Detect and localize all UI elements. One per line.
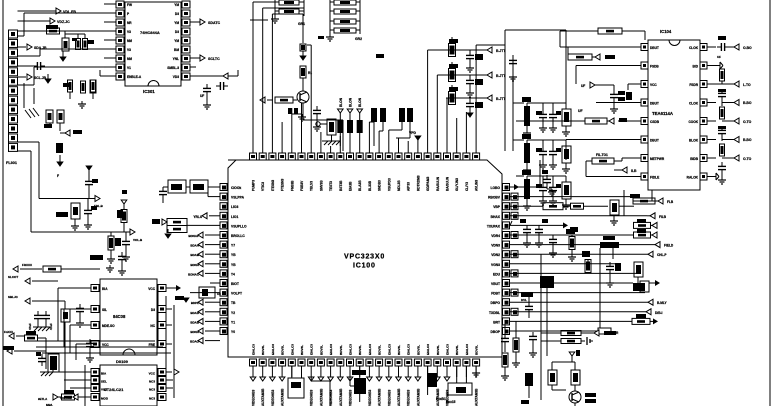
svg-text:LIO3: LIO3 <box>231 205 238 209</box>
svg-text:DBUT: DBUT <box>650 139 659 143</box>
IC100 left pin 12 (VOLPT) <box>220 289 242 296</box>
IC100 right pin 2 (RBOBV) <box>488 193 518 200</box>
ground <box>78 101 86 108</box>
IC100 left pin 7 (Y7) <box>220 241 235 248</box>
capacitor C134 <box>529 332 537 357</box>
svg-text:VSUPLLO: VSUPLLO <box>231 224 247 228</box>
terminal O.BO <box>717 36 752 59</box>
resistor R304 <box>62 38 69 51</box>
resistor R161 PLB <box>62 365 86 406</box>
terminal BPB <box>594 330 616 336</box>
IC100 left pin 8 (YB) <box>220 251 236 258</box>
IC104 pin 1 (DBUT) <box>632 44 659 51</box>
svg-text:BDNA: BDNA <box>190 330 199 334</box>
wire <box>623 190 625 216</box>
resistor R307 <box>90 80 96 99</box>
IC100 right pin 13 (DBPO) <box>490 299 509 306</box>
svg-text:LOBO: LOBO <box>490 186 500 190</box>
svg-text:VOL.B: VOL.B <box>133 238 143 242</box>
svg-text:CLOK: CLOK <box>689 46 699 50</box>
svg-text:SEL: SEL <box>101 380 107 384</box>
svg-text:RBOBV: RBOBV <box>488 196 501 200</box>
IC100 top pin 9 <box>327 146 334 160</box>
svg-text:FIDLE: FIDLE <box>650 176 659 180</box>
label UF <box>578 109 583 113</box>
IC100 right pin 14 (TXDBL) <box>489 308 518 315</box>
svg-text:EIALC3: EIALC3 <box>387 344 391 355</box>
svg-text:FRXXX: FRXXX <box>22 263 32 267</box>
ground <box>466 90 474 97</box>
wire <box>165 296 167 390</box>
terminal ref <box>174 369 179 375</box>
IC100 top pin 18 <box>414 146 421 160</box>
svg-text:NR: NR <box>127 21 132 25</box>
IC100 top pin 19 <box>424 146 431 160</box>
wire <box>263 8 304 146</box>
resistor R140 <box>446 366 472 404</box>
svg-text:RDTRDM3: RDTRDM3 <box>416 175 420 191</box>
resistor R132 <box>548 370 557 385</box>
svg-text:GD/PAM3: GD/PAM3 <box>426 176 430 191</box>
terminal BDAD <box>190 309 220 315</box>
wire <box>339 136 341 146</box>
svg-text:BDPL: BDPL <box>191 301 199 305</box>
svg-text:BDAB: BDAB <box>190 253 199 257</box>
svg-text:SIL: SIL <box>102 308 107 312</box>
wire <box>527 102 566 104</box>
svg-text:VPD: VPD <box>409 131 417 135</box>
capacitor C161 <box>118 252 126 275</box>
terminal SBLJC <box>8 295 65 304</box>
wire <box>527 175 566 177</box>
wire <box>190 66 196 68</box>
IC100 top pin 23 <box>463 146 470 160</box>
svg-text:SDATC: SDATC <box>208 21 221 25</box>
svg-text:VIDEOHB3: VIDEOHB3 <box>387 389 391 406</box>
wire <box>599 248 601 328</box>
IC109 pin 5 (FRE) <box>149 341 166 348</box>
IC100 bottom pin 4 <box>279 359 286 377</box>
capacitor C321 <box>466 75 483 90</box>
svg-text:L.TO: L.TO <box>743 83 751 87</box>
component D151 <box>48 354 59 372</box>
svg-text:TXDBL: TXDBL <box>489 311 500 315</box>
svg-text:74HC844A: 74HC844A <box>140 30 160 35</box>
IC100 right pin 3 (VBP) <box>493 203 518 210</box>
svg-text:EIA3B: EIA3B <box>349 181 353 191</box>
svg-text:FTESN3: FTESN3 <box>281 179 285 191</box>
wire <box>60 31 65 38</box>
wire <box>552 362 575 370</box>
wire <box>33 88 35 104</box>
wire <box>510 330 598 332</box>
resistor R313 <box>316 119 336 141</box>
svg-text:DBOP: DBOP <box>490 330 500 334</box>
terminal BDNAP <box>188 232 220 238</box>
svg-text:84C08: 84C08 <box>113 314 126 319</box>
IC301 pin 2 (left) <box>110 1 132 8</box>
wire <box>513 139 524 141</box>
capacitor C132 <box>501 334 509 352</box>
svg-text:DBUT: DBUT <box>650 102 659 106</box>
IC100 bottom pin 18 <box>414 359 421 377</box>
wire <box>504 321 506 334</box>
IC100 left pin 5 (VSUPLLO) <box>220 222 247 229</box>
resistor R137 <box>634 262 643 283</box>
terminal CHL.P <box>648 251 667 257</box>
svg-text:AUXTAM3B: AUXTAM3B <box>319 388 323 406</box>
wire <box>302 14 304 43</box>
svg-text:AUXTAM3B: AUXTAM3B <box>397 388 401 406</box>
svg-text:VCC: VCC <box>102 343 109 347</box>
wire <box>576 66 632 85</box>
IC109 pin 7 (D3) <box>151 306 166 313</box>
wire <box>320 132 322 146</box>
IC100 bottom pin 7 <box>308 359 315 377</box>
terminal YRLA <box>193 213 220 219</box>
svg-text:EDU: EDU <box>493 272 501 276</box>
IC100 top pin 17 <box>405 146 412 160</box>
resistor R321 <box>449 62 459 82</box>
svg-text:AUXTAM3B: AUXTAM3B <box>475 388 479 406</box>
component U105 <box>540 276 554 288</box>
IC100 bottom pin 20 <box>434 359 441 377</box>
wire <box>560 46 632 48</box>
IC100 bottom pin 19 <box>424 359 431 377</box>
ground hatch <box>322 141 340 145</box>
IC100 bottom pin 6 <box>298 359 305 377</box>
IC100 left pin 14 (Y2) <box>220 308 235 315</box>
capacitor C121 <box>520 219 531 247</box>
IC100 bottom pin 23 <box>463 359 470 377</box>
svg-text:FSDR: FSDR <box>689 83 698 87</box>
wire <box>70 325 85 353</box>
svg-text:ILB: ILB <box>631 169 637 173</box>
svg-text:O.TO: O.TO <box>743 120 752 124</box>
svg-text:VDN3: VDN3 <box>491 244 500 248</box>
IC100 left pin 9 (YB) <box>220 260 236 267</box>
IC100 left pin 3 (LIO3) <box>220 203 238 210</box>
terminal YIN <box>260 97 273 103</box>
IC109 pin 4 (VCC) <box>85 341 109 348</box>
svg-text:O.BO: O.BO <box>743 46 752 50</box>
sheet border left <box>2 0 4 406</box>
wire <box>574 385 576 406</box>
svg-text:BA/SU.IN: BA/SU.IN <box>446 176 450 191</box>
wire <box>293 99 297 101</box>
capacitor C340a <box>536 103 547 132</box>
capacitor C114 <box>600 84 641 113</box>
terminal BDNAC <box>188 270 220 276</box>
transistor Q301 <box>297 91 309 103</box>
IC100 left pin 6 (BROLLC) <box>220 232 245 239</box>
RC chain 2 above pin <box>347 97 353 146</box>
resistor R156 <box>167 219 187 226</box>
IC100 top pin 4 <box>279 146 286 160</box>
svg-text:ExxB1: ExxB1 <box>436 397 446 401</box>
wire <box>18 67 111 85</box>
svg-text:CL/Y3: CL/Y3 <box>465 182 469 191</box>
svg-text:AUXTAM3B: AUXTAM3B <box>416 388 420 406</box>
IC301 pin 7 (left) <box>110 46 131 53</box>
supply tri6 <box>121 190 127 209</box>
wire <box>510 221 512 225</box>
wire <box>504 45 506 151</box>
label BBD <box>152 219 167 225</box>
svg-text:VCC: VCC <box>149 372 156 376</box>
terminal VDZ.JC <box>50 18 70 24</box>
IC100 top pin 10 <box>337 146 344 160</box>
svg-text:SCL.JB: SCL.JB <box>34 76 47 80</box>
capacitor C165 <box>42 311 53 330</box>
wire <box>166 343 172 345</box>
IC100 left pin 4 (LIO1) <box>220 212 238 219</box>
resistor R150 470-R6B <box>56 203 80 230</box>
resistor R342 <box>522 170 531 210</box>
supply tri4 <box>56 143 63 178</box>
ground <box>467 113 473 117</box>
IC100 top pin 16 <box>395 146 402 160</box>
wire <box>527 139 566 141</box>
terminal BDAB <box>190 251 220 257</box>
terminal B.BO2 <box>722 137 752 143</box>
svg-text:Y0: Y0 <box>231 330 235 334</box>
IC104 pin 9 (RALOK) <box>687 173 716 180</box>
capacitor C166 <box>36 352 46 366</box>
resistor R340 <box>522 97 531 137</box>
resistor R109a <box>634 219 658 228</box>
capacitor C153 <box>122 232 130 261</box>
svg-text:AUXTAM3B: AUXTAM3B <box>339 388 343 406</box>
svg-text:BIOT: BIOT <box>231 282 239 286</box>
wire <box>311 377 330 406</box>
svg-text:FNS3B: FNS3B <box>290 180 294 191</box>
svg-text:VOLPT: VOLPT <box>231 292 242 296</box>
svg-text:BDAA: BDAA <box>190 244 199 248</box>
svg-text:BIDB: BIDB <box>690 157 698 161</box>
wire <box>50 123 60 131</box>
svg-text:SLCOT: SLCOT <box>8 275 18 279</box>
svg-text:YNL: YNL <box>173 57 179 61</box>
wire <box>546 288 548 356</box>
IC100 right pin 6 (VDR4) <box>491 232 518 239</box>
capacitor C133 <box>521 373 533 404</box>
capacitor C160 <box>76 304 84 327</box>
resistor R110 <box>716 69 725 84</box>
svg-text:V1: V1 <box>127 66 131 70</box>
wire <box>250 19 268 21</box>
resistor R351 <box>562 140 571 173</box>
IC104 pin 12 (COOK) <box>688 118 716 125</box>
wire <box>18 13 111 36</box>
svg-text:BRT: BRT <box>493 320 500 324</box>
svg-text:BIA: BIA <box>102 287 108 291</box>
ground <box>716 62 723 69</box>
svg-text:B.BO: B.BO <box>743 101 752 105</box>
wire <box>58 371 85 373</box>
svg-text:YRLA: YRLA <box>193 215 202 219</box>
IC100 top pin 20 <box>434 146 441 160</box>
resistor R307b <box>81 81 86 93</box>
terminal 9ETLA <box>38 394 62 401</box>
wire <box>65 34 85 38</box>
svg-text:GR2: GR2 <box>355 37 362 41</box>
svg-text:VIDEOHB3: VIDEOHB3 <box>252 389 256 406</box>
svg-text:UF: UF <box>581 84 585 88</box>
sheet border right <box>769 0 771 406</box>
svg-text:DVL: DVL <box>521 298 527 302</box>
capacitor C122 <box>535 219 548 247</box>
svg-text:Y7: Y7 <box>231 244 235 248</box>
connector FL301 label <box>6 161 17 165</box>
wire <box>510 272 638 274</box>
svg-text:MOD: MOD <box>101 397 109 401</box>
component X101 <box>288 366 304 398</box>
wire <box>166 371 172 373</box>
svg-text:YM: YM <box>174 39 179 43</box>
label r3 <box>318 36 324 39</box>
resistor R352 <box>562 176 571 209</box>
wire <box>516 120 585 122</box>
svg-text:BIA: BIA <box>101 372 107 376</box>
svg-text:BLON: BLON <box>349 97 353 107</box>
IC100 bottom stub arrows <box>250 377 450 381</box>
resistor R152 PLJB <box>107 232 121 263</box>
resistor R141 <box>541 339 585 344</box>
wire <box>510 292 645 294</box>
capacitor C154 <box>159 187 167 203</box>
svg-text:V3: V3 <box>127 48 131 52</box>
IC104 pin 15 (BID) <box>693 62 717 69</box>
IC109 pin 2 (SIL) <box>85 306 107 313</box>
svg-text:BDNAP: BDNAP <box>188 234 199 238</box>
svg-text:AVL/N3: AVL/N3 <box>475 180 479 191</box>
svg-text:BDAB: BDAB <box>190 320 199 324</box>
label GR2 <box>355 37 362 41</box>
svg-text:VD3: VD3 <box>173 75 179 79</box>
ground <box>203 96 211 109</box>
IC104 pin 11 (BLOK) <box>689 136 716 143</box>
ground <box>106 265 114 272</box>
terminal VDB <box>175 293 220 302</box>
svg-text:Bxx15: Bxx15 <box>446 400 456 404</box>
capacitor C163 <box>86 339 94 362</box>
wire <box>456 118 458 146</box>
svg-text:VGN3: VGN3 <box>491 263 500 267</box>
capacitor C311 <box>288 108 299 146</box>
wire <box>510 311 647 313</box>
capacitor C119 <box>542 170 556 196</box>
capacitor C341a <box>536 140 547 169</box>
terminal SDATC <box>190 19 221 25</box>
wire <box>379 131 383 146</box>
terminal B.JTT 1 <box>487 72 506 78</box>
wire <box>207 70 238 76</box>
IC301 pin 10 (left) <box>110 73 142 80</box>
wire <box>566 140 632 161</box>
IC301 pin 4 (left) <box>110 19 132 26</box>
IC110 pin 1 (BIA) <box>85 369 107 376</box>
capacitor C320 <box>466 50 483 65</box>
wire <box>437 75 446 146</box>
svg-text:VIDEOHB3: VIDEOHB3 <box>310 389 314 406</box>
resistor R124 LBP <box>510 236 655 248</box>
wire <box>190 75 207 77</box>
svg-text:EIALC3: EIALC3 <box>329 344 333 355</box>
svg-text:AUXTAM3B: AUXTAM3B <box>378 388 382 406</box>
svg-text:BLOK: BLOK <box>689 139 699 143</box>
terminal VOLT <box>60 394 85 400</box>
IC100 top pin 5 <box>288 146 295 160</box>
resistor R305b <box>83 39 95 50</box>
wire <box>70 387 85 389</box>
wire <box>510 184 540 190</box>
svg-text:VCC: VCC <box>650 83 657 87</box>
resistor R309 <box>57 110 64 123</box>
svg-text:ITESN3: ITESN3 <box>271 180 275 191</box>
label VSW <box>376 54 384 58</box>
IC301 pin 6 (left) <box>110 37 132 44</box>
IC110 pin 3 (VILT) <box>85 385 107 392</box>
svg-text:YB: YB <box>231 263 236 267</box>
wire <box>539 160 541 187</box>
hatch marks <box>25 108 39 118</box>
component C162 <box>199 287 221 298</box>
resistor R142 <box>568 47 615 60</box>
svg-text:IC301: IC301 <box>143 89 155 94</box>
svg-text:BLON: BLON <box>358 97 362 107</box>
svg-text:VBUT: VBUT <box>491 282 500 286</box>
capacitor C151 <box>85 177 98 199</box>
IC100 left pin 2 (VSLPPA) <box>220 193 245 200</box>
wire <box>396 138 399 146</box>
IC100 top pin labels <box>252 175 479 191</box>
resistor R312 <box>275 97 293 103</box>
svg-text:ENBLE-A: ENBLE-A <box>127 75 142 79</box>
IC301 pin 18 (right) <box>174 1 190 8</box>
resistor R125 <box>610 200 634 225</box>
IC100 top pin 21 <box>444 146 451 160</box>
resistor R107 FIL.TO1 <box>592 153 614 164</box>
supply arrow <box>300 51 306 60</box>
IC301 pin 11 (right) <box>167 64 190 71</box>
svg-text:COOK: COOK <box>688 120 698 124</box>
wire <box>540 254 542 400</box>
svg-text:BDV3L: BDV3L <box>397 345 401 355</box>
wire <box>166 308 172 310</box>
wire <box>614 158 632 161</box>
IC100 bottom pin labels <box>252 344 479 355</box>
svg-text:RA/SU.IN: RA/SU.IN <box>436 176 440 191</box>
IC100 bottom pin 24 <box>473 359 480 377</box>
IC110 pin 4 (MOD) <box>85 394 109 401</box>
svg-text:EIALC3: EIALC3 <box>446 344 450 355</box>
svg-text:BDAO: BDAO <box>190 340 199 344</box>
svg-text:FL301: FL301 <box>6 161 17 165</box>
wire <box>505 30 560 45</box>
IC301 pin 15 (right) <box>175 28 190 35</box>
terminal VCC <box>223 73 228 79</box>
IC100 top pin 11 <box>347 146 354 160</box>
wire <box>612 248 614 259</box>
IC U104 TEA6414A body <box>648 29 700 190</box>
svg-text:BDV3L: BDV3L <box>436 345 440 355</box>
wire <box>512 55 514 151</box>
wire <box>36 346 163 348</box>
wire <box>510 282 633 284</box>
IC110 pin 6 (NC3) <box>149 385 166 392</box>
svg-text:Y1: Y1 <box>231 320 235 324</box>
